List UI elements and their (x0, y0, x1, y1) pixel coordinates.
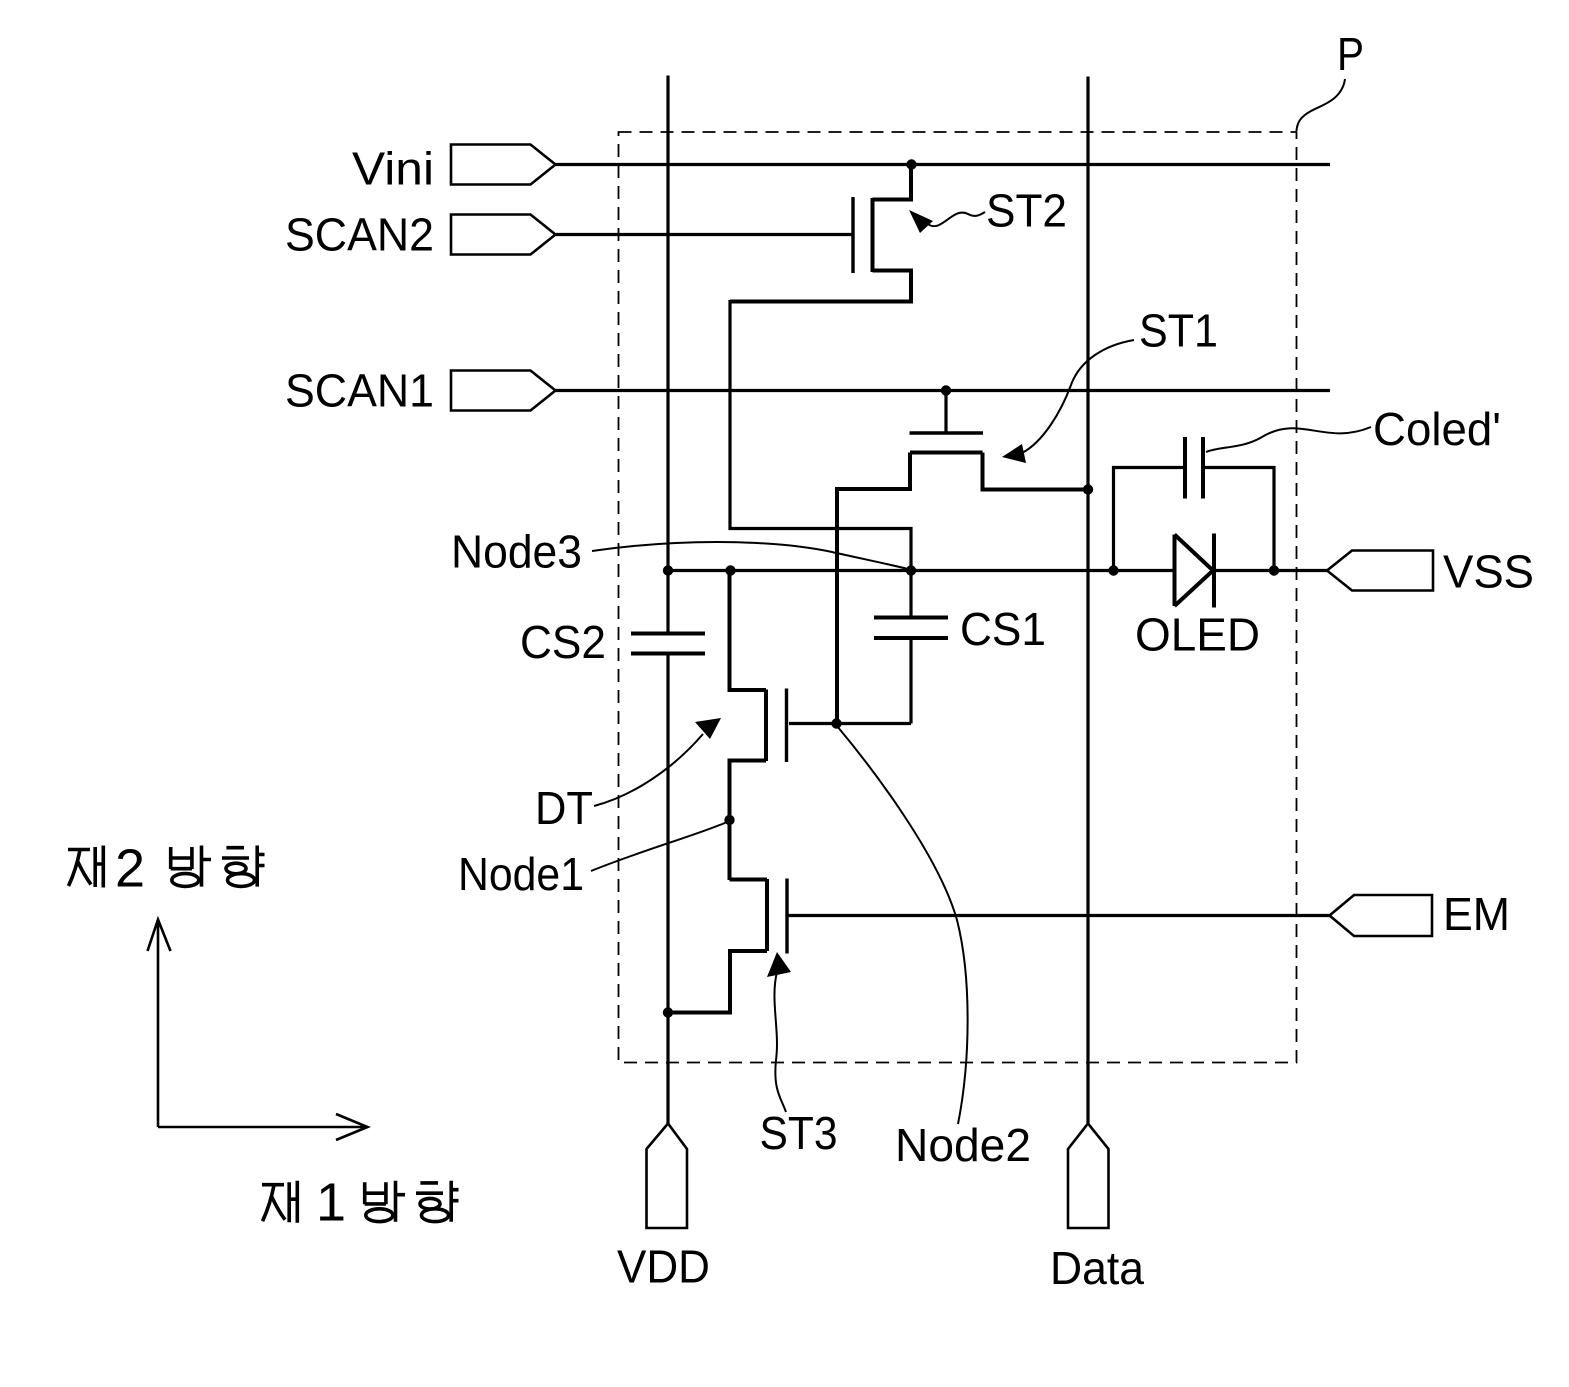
node Node2 junction (831, 718, 841, 728)
diode OLED anode triangle (1175, 535, 1214, 607)
transistor ST2 gate bar (851, 197, 854, 273)
wire Data vertical line (1086, 77, 1089, 1124)
capacitor Coled' right lead (1203, 468, 1274, 571)
transistor ST1 gate stub from SCAN1 (944, 391, 947, 433)
wire ST3 source to VDD (668, 951, 767, 1013)
svg-text:CS2: CS2 (520, 616, 606, 668)
svg-text:Node2: Node2 (895, 1119, 1031, 1171)
wire SCAN2 horizontal to ST2 gate (556, 233, 854, 236)
node Node1 (724, 815, 734, 825)
wire DT drain to Node3 (730, 572, 767, 690)
capacitor CS1 bottom lead to Node2 (909, 640, 912, 724)
node Node3 at Coled' right (1269, 565, 1279, 575)
svg-text:OLED: OLED (1135, 609, 1260, 661)
arrowhead ST1 (1002, 444, 1026, 463)
svg-text:DT: DT (535, 782, 593, 834)
wire Node3 horizontal (OLED cathode to VSS flag) (1214, 569, 1327, 572)
leader DT (594, 734, 703, 806)
terminal flag SCAN2 (451, 215, 556, 255)
svg-text:P: P (1337, 28, 1364, 80)
leader ST2 (928, 212, 985, 226)
svg-text:ST2: ST2 (986, 185, 1067, 237)
wire ST2 drain to Vini (873, 165, 912, 200)
svg-text:VSS: VSS (1443, 546, 1534, 598)
terminal flag Vini (451, 145, 556, 185)
wire ST2 source step (730, 271, 911, 302)
transistor ST2 channel bar (871, 198, 875, 272)
leader Node2 (837, 726, 968, 1124)
svg-text:EM: EM (1443, 888, 1510, 940)
node Node3 at CS1 (906, 565, 916, 575)
svg-text:Node3: Node3 (451, 526, 582, 578)
wire DT source down to Node1 (730, 761, 767, 881)
svg-text:Vini: Vini (352, 143, 434, 195)
terminal flag Data (1068, 1124, 1109, 1229)
svg-text:Coled': Coled' (1373, 403, 1501, 455)
arrowhead ST2 (909, 210, 933, 233)
svg-text:ST3: ST3 (760, 1107, 838, 1159)
node ST3/VDD junction (663, 1007, 673, 1017)
wire Vini horizontal (556, 163, 1331, 166)
transistor DT gate bar (785, 689, 788, 763)
svg-text:Node1: Node1 (458, 848, 584, 900)
wire ST2 source down and across to Node3 (730, 300, 911, 571)
wire EM horizontal (787, 914, 1330, 917)
transistor ST3 gate bar (785, 879, 788, 954)
axis arrow horizontal (first direction) (158, 1114, 368, 1140)
wire ST1 right lead to Data (983, 453, 1089, 490)
leader Node3 (592, 542, 908, 569)
svg-text:ST1: ST1 (1139, 305, 1218, 357)
svg-text:SCAN1: SCAN1 (285, 365, 434, 417)
svg-text:2: 2 (115, 839, 145, 899)
diode OLED cathode bar (1212, 534, 1216, 608)
node ST1/Data junction (1083, 484, 1093, 494)
arrowhead DT (695, 718, 721, 739)
node Node3 at DT drain (725, 565, 735, 575)
leader Node1 (591, 822, 727, 871)
terminal flag EM (1330, 895, 1433, 936)
pixel boundary box P (dashed) (619, 132, 1297, 1063)
wire ST1 left lead down to Node2 (837, 453, 910, 724)
transistor ST3 channel bar (765, 879, 769, 951)
wire SCAN1 horizontal (556, 389, 1331, 392)
capacitor CS2 plates (631, 634, 705, 654)
transistor ST1 gate bar (910, 431, 984, 434)
wire VDD vertical (lower segment, CS2 bottom plate to VDD flag) (666, 656, 669, 1124)
svg-text:VDD: VDD (617, 1241, 710, 1293)
terminal flag VSS (1327, 551, 1433, 591)
wire Node3 horizontal (VDD to OLED anode) (668, 569, 1175, 572)
capacitor CS1 plates (874, 618, 948, 639)
terminal flag SCAN1 (451, 371, 556, 411)
svg-text:Data: Data (1050, 1242, 1144, 1294)
svg-text:1: 1 (316, 1173, 346, 1233)
transistor DT channel bar (764, 690, 768, 762)
transistor ST1 channel bar (910, 451, 983, 455)
leader Coled' (1206, 427, 1371, 452)
leader ST1 (1022, 340, 1134, 453)
wire VDD vertical (upper segment, top to CS2 top plate) (666, 76, 669, 632)
svg-text:SCAN2: SCAN2 (285, 209, 434, 261)
axis arrow vertical (second direction) (148, 920, 171, 1128)
label 제1 방향 (1st direction) (262, 1181, 459, 1223)
arrowhead ST3 (767, 952, 791, 977)
capacitor Coled' left lead (1114, 468, 1186, 571)
svg-text:CS1: CS1 (960, 603, 1046, 655)
leader ST3 (774, 972, 786, 1112)
leader P (1297, 79, 1346, 131)
wire ST3 drain step (730, 878, 768, 882)
node Node3 at Coled' left (1108, 565, 1118, 575)
wire Node2 horizontal (DT gate to CS1) (789, 722, 911, 725)
terminal flag VDD (647, 1124, 688, 1229)
capacitor Coled' plates (1185, 437, 1203, 499)
label 제2 방향 (2nd direction) (68, 846, 265, 888)
capacitor CS1 top lead (909, 571, 912, 616)
node Node3 at VDD/CS2 (663, 565, 673, 575)
node SCAN1/ST1 gate junction (941, 385, 951, 395)
node Vini/ST2 junction (906, 159, 916, 169)
